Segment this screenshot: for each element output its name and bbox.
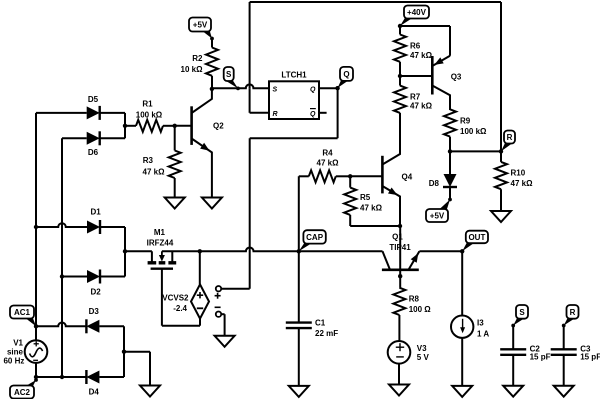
svg-text:D4: D4 [89, 387, 100, 396]
junction AC2 node [34, 375, 38, 379]
diode D1 [87, 221, 100, 234]
VCVS2 control- wire to ground [221, 313, 224, 315]
transistor Q3 base wire [400, 75, 432, 77]
svg-text:Q: Q [343, 70, 349, 79]
diode D6 [87, 132, 100, 145]
svg-text:47 kΩ: 47 kΩ [360, 204, 383, 213]
current source I3 circle [451, 316, 473, 338]
svg-text:60 Hz: 60 Hz [3, 357, 24, 366]
wire x62 vertical D6 to D2 [61, 138, 63, 276]
wire R3 top lead [174, 126, 176, 151]
wire AC1 to V1 [35, 326, 37, 340]
svg-text:AC2: AC2 [14, 388, 31, 397]
svg-text:M1: M1 [154, 228, 166, 237]
VCVS2 minus sign [197, 307, 203, 309]
wire R2 top lead [211, 39, 213, 48]
svg-text:-2.4: -2.4 [173, 304, 187, 313]
junction CAP node on rail [297, 249, 301, 253]
ground under R3 [165, 198, 185, 209]
svg-text:47 kΩ: 47 kΩ [410, 102, 433, 111]
svg-text:V3: V3 [417, 344, 427, 353]
junction R1/R3/Q2 [173, 124, 177, 128]
svg-text:C1: C1 [315, 319, 326, 328]
svg-text:47 kΩ: 47 kΩ [143, 168, 166, 177]
wire R flag to C3 [563, 326, 565, 350]
V1 minus sign [33, 359, 38, 361]
VCVS2 control+ wire [221, 288, 250, 290]
transistor Q1 base lead [399, 226, 401, 288]
node S flag bottom [513, 317, 526, 325]
svg-text:R: R [507, 133, 513, 142]
diode D4 [86, 371, 99, 384]
svg-text:CAP: CAP [306, 233, 324, 242]
svg-text:R6: R6 [410, 41, 421, 50]
junction D5/D6 [123, 124, 127, 128]
svg-text:R8: R8 [409, 295, 420, 304]
resistor R5 [344, 188, 356, 215]
svg-text:D2: D2 [90, 287, 101, 296]
V1 plus sign [34, 343, 39, 345]
resistor R2 [206, 48, 218, 76]
wire C1 to ground [298, 328, 300, 386]
wire S flag to C2 [512, 326, 514, 350]
transistor Q1 collector [383, 251, 391, 269]
diode D2 [87, 270, 100, 283]
svg-text:100 Ω: 100 Ω [409, 305, 432, 314]
node Q junction [335, 86, 339, 90]
svg-text:15 pF: 15 pF [580, 353, 600, 362]
wire rail M1 source to OUT side [162, 248, 383, 252]
junction AC1 column / D1 row [34, 225, 38, 229]
transistor Q4 emitter [382, 186, 400, 226]
resistor R4 [309, 170, 336, 182]
junction below Q1 bar [398, 274, 402, 278]
VCVS2 plus sign [197, 294, 203, 296]
junction node R [499, 149, 503, 153]
wire D4 row [36, 376, 86, 378]
wire C2 to ground [512, 355, 514, 386]
resistor R6 [394, 35, 406, 62]
transistor Q2 collector [192, 89, 212, 113]
mosfet M1 body stub [161, 251, 163, 256]
svg-text:Q3: Q3 [451, 73, 462, 82]
svg-text:TIP41: TIP41 [389, 243, 411, 252]
wire rail Q1 emitter to OUT [419, 250, 462, 252]
capacitor C2 [500, 348, 526, 350]
svg-text:Q4: Q4 [402, 173, 413, 182]
wire V3 to ground [398, 364, 400, 385]
wire C3 to ground [563, 355, 565, 386]
V3 minus sign [396, 356, 404, 358]
svg-text:R1: R1 [142, 100, 153, 109]
transistor Q2 emitter arrow [200, 143, 209, 151]
wire latch Q output [319, 87, 338, 89]
svg-text:R: R [273, 111, 278, 118]
transistor Q2 emitter [192, 139, 212, 198]
diode D5 [87, 106, 100, 119]
svg-text:100 kΩ: 100 kΩ [460, 127, 487, 136]
wire I3 to ground [461, 338, 463, 386]
svg-text:R10: R10 [511, 169, 526, 178]
transistor Q4 bar [381, 156, 384, 194]
svg-text:R2: R2 [192, 54, 203, 63]
junction +40V node [398, 24, 402, 28]
transistor Q1 emitter arrow [411, 253, 419, 263]
ground under R10 [491, 211, 511, 222]
svg-text:AC1: AC1 [14, 308, 31, 317]
node AC2 flag [24, 380, 36, 387]
svg-text:R: R [570, 308, 576, 317]
mosfet M1 drain lead [151, 251, 153, 261]
mosfet M1 source lead [171, 251, 173, 261]
wire R2 bottom to node S [211, 76, 213, 89]
junction D1/D2 mid [123, 249, 127, 253]
junction D2 row [60, 274, 64, 278]
transistor Q3 collector [432, 86, 450, 111]
wire R6 bottom [399, 62, 401, 76]
svg-text:D1: D1 [90, 208, 101, 217]
junction D3/D4 mid [122, 350, 126, 354]
mosfet M1 channel contacts [148, 261, 157, 264]
wire node R vertical right side [500, 2, 502, 151]
wire node Q down to VCVS sense [337, 88, 339, 138]
wire VCVS sense vertical (hop at rail) [249, 138, 251, 289]
wire D2 row [62, 276, 87, 278]
mosfet M1 body arrow [159, 255, 165, 262]
wire R4 left lead [299, 175, 309, 177]
node OUT flag [462, 242, 476, 252]
node R flag [501, 142, 514, 151]
ground under V3 [389, 385, 409, 396]
svg-text:5 V: 5 V [417, 353, 430, 362]
node AC1 flag [24, 317, 36, 326]
svg-text:R5: R5 [360, 193, 371, 202]
node S junction [210, 87, 214, 91]
transistor Q1 bar [382, 268, 419, 271]
wire node S to latch S pin (hop over vertical) [212, 84, 269, 88]
svg-text:Q1: Q1 [392, 233, 403, 242]
svg-text:Q: Q [310, 86, 316, 93]
wire D6 cathode to join [100, 137, 125, 139]
latch Qbar stub [319, 112, 327, 114]
junction Q4 emitter / R5 / Q1 base [398, 224, 402, 228]
svg-text:IRFZ44: IRFZ44 [147, 239, 174, 248]
junction R4/R5/Q4 base [348, 174, 352, 178]
wire D8 cathode [449, 187, 451, 200]
svg-text:+5V: +5V [430, 211, 445, 220]
resistor R10 [495, 162, 507, 189]
wire rail D1/D2 to M1 drain [125, 250, 152, 252]
ground under C1 [289, 386, 309, 397]
svg-text:D3: D3 [89, 307, 100, 316]
junction OUT node [460, 249, 464, 253]
svg-text:47 kΩ: 47 kΩ [511, 179, 534, 188]
I3 arrow [462, 319, 464, 329]
wire R1 to Q2 base node [163, 125, 175, 127]
latch LTCH1 body [269, 81, 319, 119]
ground under C3 [554, 386, 574, 397]
junction R9/D8 [448, 149, 452, 153]
ground VCVS2 control [215, 336, 235, 347]
source V3 circle [388, 341, 411, 364]
resistor R8 [393, 288, 405, 315]
svg-text:Q2: Q2 [213, 122, 224, 131]
svg-text:V1: V1 [13, 339, 23, 348]
V3 plus sign [396, 346, 404, 348]
resistor R7 [394, 86, 406, 113]
transistor Q2 base wire [175, 125, 192, 127]
diode D8 [444, 174, 457, 187]
wire R3 to ground [174, 178, 176, 198]
wire D4 anode join [99, 376, 124, 378]
svg-text:100 kΩ: 100 kΩ [136, 111, 163, 120]
wire R5 bottom to Q1 base node [349, 215, 351, 226]
resistor R3 [169, 151, 181, 179]
wire R node row [450, 150, 501, 152]
node R flag bottom [564, 317, 577, 325]
VCVS2 control plus sign [215, 295, 221, 297]
wire +40V to Q3 emitter [400, 25, 450, 27]
power flag +5V under D8 [438, 200, 450, 211]
power flag +40V [400, 17, 414, 26]
V1 sine wave [30, 348, 43, 357]
diode D3 [86, 320, 99, 333]
svg-text:S: S [226, 70, 232, 79]
svg-text:15 pF: 15 pF [530, 353, 551, 362]
wire R10 top lead [500, 151, 502, 162]
wire R6 top lead [399, 26, 401, 35]
junction R6/R7/Q3 base [398, 74, 402, 78]
VCVS2 control- terminal [216, 312, 221, 317]
wire latch R pin lead [250, 112, 269, 114]
wire D5 cathode to join [100, 112, 125, 114]
svg-text:R7: R7 [410, 93, 421, 102]
wire VCVS2 output+ to rail [199, 251, 201, 284]
svg-text:+5V: +5V [193, 20, 208, 29]
wire R8 to V3 [398, 315, 400, 341]
transistor Q1 emitter [409, 251, 420, 269]
svg-text:47 kΩ: 47 kΩ [410, 51, 433, 60]
transistor Q3 emitter arrow [434, 57, 444, 65]
resistor R1 [136, 120, 163, 132]
wire D1 cathode join [100, 226, 125, 228]
wire D6 row left [62, 137, 87, 139]
wire R4 right lead [336, 175, 350, 177]
node S flag [224, 80, 238, 89]
node CAP flag [299, 242, 314, 251]
transistor Q4 emitter arrow [388, 188, 398, 196]
svg-text:S: S [519, 308, 525, 317]
wire segment from top to latch R pin column [249, 88, 251, 113]
svg-text:D6: D6 [88, 148, 99, 157]
svg-text:1 A: 1 A [477, 330, 489, 339]
wire to R1 [125, 125, 136, 127]
svg-text:22 mF: 22 mF [315, 329, 338, 338]
svg-text:VCVS2: VCVS2 [162, 294, 189, 303]
ground under Q2 emitter [202, 198, 222, 209]
node Q flag [338, 79, 350, 88]
VCVS2 control+ terminal [216, 286, 221, 291]
wire D3 anode join [99, 325, 124, 327]
capacitor C1 [286, 321, 312, 323]
wire R5 top lead [349, 176, 351, 187]
resistor R9 [444, 109, 456, 136]
svg-text:Q: Q [310, 111, 316, 118]
svg-text:R9: R9 [460, 117, 471, 126]
wire x62 vertical D2 to D4 (hop at AC1 row) [61, 277, 63, 378]
svg-text:S: S [273, 86, 278, 93]
wire D1 row (hop over x62) [36, 223, 87, 227]
junction VCVS+ on rail [198, 249, 202, 253]
svg-text:R4: R4 [322, 149, 333, 158]
wire D8 top lead [449, 151, 451, 174]
svg-text:10 kΩ: 10 kΩ [181, 65, 204, 74]
wire OUT to I3 [461, 251, 463, 315]
wire R4 left vertical to CAP node [298, 176, 300, 251]
ground under D3/D4 [140, 386, 160, 397]
transistor Q3 emitter [432, 56, 450, 66]
ground under I3 [452, 386, 472, 397]
wire top interconnect VCVS sense to node R [250, 1, 501, 3]
mosfet M1 gate bar [151, 268, 173, 270]
svg-text:D8: D8 [429, 179, 440, 188]
wire D2 cathode join [100, 276, 125, 278]
junction x62/D4 [60, 375, 64, 379]
svg-text:D5: D5 [88, 95, 99, 104]
wire R10 to ground [500, 189, 502, 211]
wire R9 bottom to node [449, 137, 451, 152]
svg-text:R3: R3 [143, 156, 154, 165]
ground under C2 [503, 386, 523, 397]
capacitor C3 [551, 348, 577, 350]
capacitor C1 top wire [298, 251, 300, 322]
VCVS2 control minus sign [215, 306, 221, 308]
wire R7 top lead [399, 76, 401, 86]
transistor Q2 bar [190, 106, 193, 145]
wire left column from D5 row down to AC1 [35, 113, 37, 326]
transistor Q3 bar [431, 56, 434, 95]
wire V1 to AC2 [35, 363, 37, 380]
svg-text:I3: I3 [477, 319, 484, 328]
source V1 circle [25, 340, 48, 363]
wire D3 row (hop over x62) [36, 323, 86, 327]
wire M1 gate to VCVS2 output- [161, 269, 163, 326]
power flag +5V [201, 30, 212, 39]
svg-text:+40V: +40V [407, 8, 427, 17]
transistor Q4 base wire [350, 175, 382, 177]
transistor Q4 collector [382, 113, 400, 165]
junction AC1 node [34, 324, 38, 328]
svg-text:LTCH1: LTCH1 [281, 71, 307, 80]
dependent source VCVS2 diamond [191, 284, 209, 318]
svg-text:OUT: OUT [468, 233, 485, 242]
wire D3/D4 mid to ground [124, 351, 150, 353]
svg-text:47 kΩ: 47 kΩ [317, 159, 340, 168]
wire D5 row left [36, 112, 87, 114]
svg-text:sine: sine [7, 348, 24, 357]
